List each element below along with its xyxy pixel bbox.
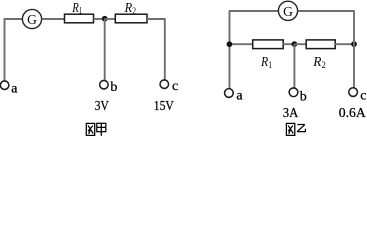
wire: G to resistor R1	[42, 18, 65, 20]
wire: middle rail node to R1	[230, 43, 253, 45]
svg-text:a: a	[11, 81, 18, 96]
svg-text:b: b	[300, 89, 307, 104]
resistor R1 (left circuit)	[65, 14, 94, 23]
terminal c (left circuit)	[160, 80, 169, 89]
wire: R1 to middle node	[283, 43, 294, 45]
wire: top rail right segment (G to corner)	[298, 10, 354, 12]
svg-text:c: c	[360, 89, 366, 104]
wire: node down to terminal b	[104, 19, 106, 81]
wire: right vertical (top corner through node to terminal c)	[353, 10, 355, 87]
node dot left (right circuit)	[227, 41, 233, 47]
terminal b (left circuit)	[100, 80, 109, 89]
wire: middle node down to terminal b	[293, 44, 295, 88]
terminal a (left circuit)	[0, 81, 9, 90]
resistor R1 (right circuit)	[253, 40, 284, 49]
wire: R2 to right corner and down to terminal c	[147, 19, 165, 80]
svg-text:0.6A: 0.6A	[339, 106, 367, 121]
wire: middle node to R2	[294, 43, 306, 45]
svg-text:15V: 15V	[154, 99, 174, 114]
caption 图甲	[86, 123, 106, 136]
terminal c (right circuit)	[349, 88, 358, 97]
wire: R2 to right node	[335, 43, 354, 45]
svg-text:c: c	[172, 79, 178, 94]
svg-text:G: G	[27, 12, 37, 27]
resistor R2 (left circuit)	[115, 14, 147, 23]
galvanometer G (left)	[22, 9, 41, 28]
node junction dot (left circuit)	[102, 16, 108, 22]
caption 图乙	[286, 123, 305, 135]
node dot right (right circuit)	[351, 41, 357, 47]
galvanometer G (right)	[278, 1, 297, 20]
wire: top rail left segment (corner to G)	[230, 10, 279, 12]
svg-text:G: G	[283, 4, 293, 19]
wire: node to R2	[105, 18, 116, 20]
resistor R2 (right circuit)	[306, 40, 335, 49]
wire: left top horizontal (corner to G)	[5, 18, 23, 20]
terminal b (right circuit)	[289, 88, 298, 97]
svg-text:3V: 3V	[95, 99, 109, 114]
svg-text:a: a	[236, 89, 243, 104]
terminal a (right circuit)	[225, 89, 234, 98]
svg-text:3A: 3A	[283, 106, 299, 121]
node dot middle (right circuit)	[292, 41, 298, 47]
svg-text:b: b	[110, 80, 117, 95]
wire: left vertical (top corner through node to terminal a)	[229, 10, 231, 88]
wire: R1 to node	[94, 18, 105, 20]
wire: left vertical down to terminal a	[4, 18, 6, 81]
